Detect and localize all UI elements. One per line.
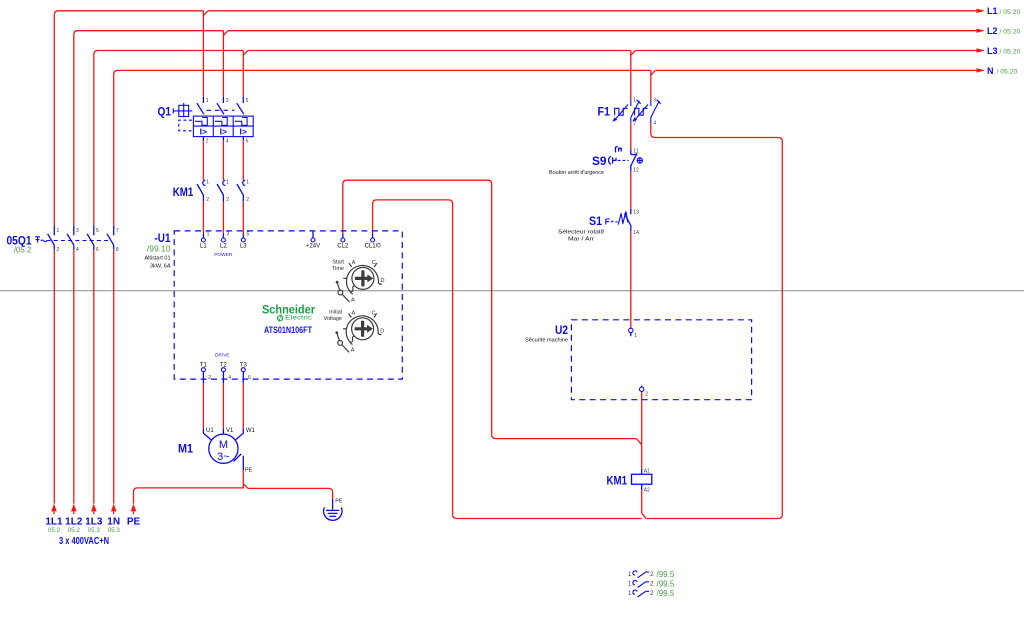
net label L3 right: [987, 46, 1021, 56]
svg-text:Mar / Arr: Mar / Arr: [568, 237, 594, 243]
Schneider Electric logo: [262, 305, 315, 325]
svg-text:1: 1: [628, 581, 632, 588]
wire Q1 to KM1 pole3: [242, 141, 244, 180]
svg-text:Bouton arrêt d'urgence: Bouton arrêt d'urgence: [549, 170, 604, 176]
svg-text:6: 6: [248, 375, 251, 381]
svg-text:14: 14: [633, 230, 639, 236]
wire U2 pin2 to KM1 coil: [641, 392, 643, 469]
svg-text:6: 6: [96, 247, 99, 253]
emergency stop button S9: [549, 147, 643, 176]
safety module U2: [525, 320, 752, 400]
svg-text:2: 2: [226, 197, 229, 203]
svg-text:Voltage: Voltage: [324, 316, 342, 322]
potentiometer Start Time: [332, 260, 385, 304]
U1 pin +24V: [306, 232, 320, 250]
svg-text:S9: S9: [592, 154, 607, 168]
svg-text:/ 05.20: / 05.20: [1000, 9, 1021, 16]
svg-text:2: 2: [633, 121, 636, 127]
svg-text:L3: L3: [240, 244, 247, 250]
svg-text:Electric: Electric: [285, 316, 312, 322]
svg-text:+24V: +24V: [306, 244, 320, 250]
svg-text:3kW, 6A: 3kW, 6A: [150, 264, 171, 270]
source label 1L1: [45, 517, 63, 535]
svg-text:1L1: 1L1: [45, 517, 63, 528]
svg-text:I>: I>: [200, 126, 207, 136]
source label 1L2: [65, 517, 83, 535]
wire motor PE drop: [242, 470, 244, 488]
wire CL2 to coil junction: [343, 180, 642, 444]
wire F1 pole2 to N rail: [646, 123, 782, 518]
U1 pin CL2: [337, 233, 349, 249]
source arrow 1L3: [91, 504, 97, 515]
contact cross-reference row 3: [628, 589, 675, 598]
svg-text:A: A: [352, 260, 356, 266]
wire KM1 to U1 L2: [222, 202, 224, 234]
wire bus L1: [54, 11, 976, 504]
svg-text:KM1: KM1: [173, 185, 194, 199]
bus arrow L2: [977, 29, 986, 33]
U1 pin L3: [240, 232, 250, 250]
svg-text:PE: PE: [127, 517, 141, 528]
net label L1 right: [987, 6, 1021, 16]
svg-text:C: C: [372, 260, 376, 266]
contactor contacts KM1: [173, 179, 249, 203]
svg-text:DRIVE: DRIVE: [215, 353, 230, 359]
svg-text:Time: Time: [332, 266, 344, 272]
svg-text:05.2: 05.2: [68, 527, 81, 534]
page divider line: [0, 290, 1024, 292]
wire Q1 to KM1 pole1: [202, 141, 204, 180]
svg-text:I>: I>: [220, 126, 227, 136]
svg-text:PE: PE: [335, 498, 343, 504]
U1 pin T2: [220, 363, 231, 384]
svg-text:D: D: [381, 278, 385, 284]
svg-text:CL1/0: CL1/0: [365, 244, 382, 250]
svg-text:1: 1: [628, 590, 632, 597]
selector switch S1: [558, 209, 639, 243]
svg-text:/99.10: /99.10: [147, 244, 171, 254]
wire PE horizontal run: [134, 484, 333, 504]
wire bus N: [114, 70, 977, 503]
svg-text:05.3: 05.3: [88, 527, 101, 534]
svg-text:D: D: [380, 328, 384, 334]
svg-text:2: 2: [650, 571, 654, 578]
svg-text:2: 2: [650, 590, 654, 597]
svg-text:1: 1: [57, 228, 60, 234]
svg-text:3: 3: [653, 98, 656, 104]
svg-text:M: M: [219, 439, 228, 451]
U2 pin 2: [640, 386, 649, 398]
source label 1N: [107, 517, 120, 535]
circuit breaker F1: [598, 98, 661, 127]
svg-text:L1: L1: [200, 244, 207, 250]
svg-text:L3: L3: [987, 46, 998, 56]
wire U1 T3 to motor: [242, 383, 244, 428]
svg-text:A2: A2: [644, 488, 650, 494]
svg-text:3: 3: [227, 232, 230, 238]
svg-text:2: 2: [650, 581, 654, 588]
svg-text:1: 1: [207, 232, 210, 238]
svg-text:5: 5: [246, 98, 249, 104]
motor breaker Q1: [158, 97, 254, 145]
contactor coil KM1: [607, 468, 652, 493]
svg-text:A: A: [351, 348, 355, 354]
svg-text:U2: U2: [555, 323, 568, 337]
svg-text:5: 5: [247, 232, 250, 238]
svg-text:2: 2: [57, 247, 60, 253]
wire U1 T2 to motor: [222, 383, 224, 428]
wire CL1/0 to N rail: [373, 200, 642, 519]
net label N right: [987, 66, 1018, 76]
svg-text:8: 8: [116, 247, 119, 253]
svg-text:S1: S1: [589, 214, 602, 228]
svg-text:L1: L1: [987, 6, 998, 16]
svg-text:1L3: 1L3: [85, 517, 103, 528]
svg-text:Sécurité machine: Sécurité machine: [525, 338, 568, 344]
svg-text:3: 3: [76, 228, 79, 234]
svg-text:Altistart 01: Altistart 01: [145, 256, 171, 262]
svg-text:POWER: POWER: [214, 252, 233, 258]
svg-text:2: 2: [206, 138, 209, 144]
source arrow 1L2: [71, 504, 77, 515]
svg-text:2: 2: [246, 197, 249, 203]
source arrow 1N: [111, 504, 117, 515]
source arrow PE: [131, 504, 137, 515]
svg-text:U1: U1: [206, 428, 214, 434]
svg-text:L2: L2: [987, 26, 998, 36]
svg-text:1: 1: [628, 571, 632, 578]
svg-text:4: 4: [76, 247, 79, 253]
wire bus L2: [74, 31, 977, 504]
svg-text:/99.5: /99.5: [657, 589, 675, 598]
wire KM1 to U1 L3: [242, 202, 244, 234]
wire bus L3: [94, 51, 977, 504]
svg-text:3~: 3~: [217, 451, 230, 463]
svg-text:2: 2: [645, 392, 648, 398]
svg-text:/99.5: /99.5: [657, 570, 675, 579]
svg-text:ATS01N106FT: ATS01N106FT: [264, 325, 312, 336]
svg-text:Start: Start: [332, 260, 344, 266]
svg-text:1: 1: [206, 98, 209, 104]
svg-text:12: 12: [633, 168, 639, 174]
svg-text:3 x 400VAC+N: 3 x 400VAC+N: [59, 536, 109, 547]
svg-text:1: 1: [206, 179, 209, 185]
U1 pin CL1/0: [365, 233, 382, 249]
svg-text:KM1: KM1: [607, 473, 628, 487]
svg-text:/ 05.20: / 05.20: [1000, 49, 1021, 56]
disconnect switch 05Q1: [7, 226, 119, 255]
wire S1 to U2 pin1: [630, 231, 632, 328]
svg-text:05.3: 05.3: [108, 527, 121, 534]
svg-text:L2: L2: [220, 244, 227, 250]
svg-text:2: 2: [208, 375, 211, 381]
svg-text:1: 1: [246, 179, 249, 185]
svg-text:4: 4: [226, 138, 229, 144]
contact cross-reference row 2: [628, 580, 675, 589]
svg-text:/ 05.20: / 05.20: [997, 68, 1018, 75]
svg-text:1: 1: [634, 333, 637, 339]
svg-text:6: 6: [246, 138, 249, 144]
svg-text:4: 4: [653, 121, 656, 127]
svg-text:M1: M1: [178, 442, 193, 456]
U1 pin L1: [200, 232, 210, 250]
svg-text:Initial: Initial: [329, 310, 342, 316]
svg-text:4: 4: [228, 375, 231, 381]
potentiometer Initial Voltage: [324, 310, 385, 354]
svg-text:5: 5: [96, 228, 99, 234]
svg-text:W1: W1: [246, 428, 256, 434]
wire F1 pole1 to S9: [630, 123, 632, 149]
wire KM1 coil A2 to N rail: [642, 490, 647, 518]
svg-text:CL2: CL2: [337, 244, 349, 250]
svg-text:7: 7: [116, 228, 119, 234]
bus arrow N: [977, 68, 986, 72]
svg-text:/99.5: /99.5: [657, 580, 675, 589]
svg-text:V1: V1: [226, 428, 234, 434]
net label L2 right: [987, 26, 1021, 36]
svg-text:/ 05.20: / 05.20: [1000, 29, 1021, 36]
svg-text:Sélecteur rotatif: Sélecteur rotatif: [558, 229, 605, 235]
svg-text:/05.2: /05.2: [14, 245, 32, 254]
svg-text:1: 1: [226, 179, 229, 185]
contact cross-reference row 1: [628, 570, 675, 579]
motor M1: [178, 428, 256, 474]
svg-text:C: C: [372, 311, 376, 317]
wire Q1 to KM1 pole2: [222, 141, 224, 180]
U1 pin T3: [240, 363, 251, 384]
svg-text:Q1: Q1: [158, 105, 172, 119]
svg-text:A: A: [351, 297, 355, 303]
U1 pin T1: [200, 363, 211, 384]
source arrow 1L1: [51, 504, 57, 515]
U2 pin 1: [629, 328, 638, 339]
ground symbol PE: [324, 498, 343, 520]
svg-text:F1: F1: [598, 105, 611, 119]
svg-text:A1: A1: [644, 468, 650, 474]
soft starter U1 box: [145, 231, 403, 379]
svg-text:05.2: 05.2: [48, 527, 61, 534]
svg-text:I>: I>: [240, 126, 247, 136]
svg-text:1N: 1N: [107, 517, 120, 528]
wire S9 to S1: [630, 171, 632, 209]
bus arrow L3: [977, 48, 986, 52]
svg-text:13: 13: [633, 210, 639, 216]
wire U1 T1 to motor: [202, 383, 204, 428]
wire KM1 to U1 L1: [202, 202, 204, 234]
svg-text:N: N: [987, 66, 994, 76]
svg-text:2: 2: [206, 197, 209, 203]
svg-text:3: 3: [226, 98, 229, 104]
bus arrow L1: [977, 9, 986, 13]
svg-text:1L2: 1L2: [65, 517, 83, 528]
source label 1L3: [85, 517, 103, 535]
svg-text:PE: PE: [245, 467, 253, 473]
svg-text:A: A: [352, 311, 356, 317]
motor PE terminal: [234, 454, 244, 470]
svg-text:1: 1: [633, 98, 636, 104]
svg-text:11: 11: [633, 148, 638, 154]
U1 pin L2: [220, 232, 230, 250]
